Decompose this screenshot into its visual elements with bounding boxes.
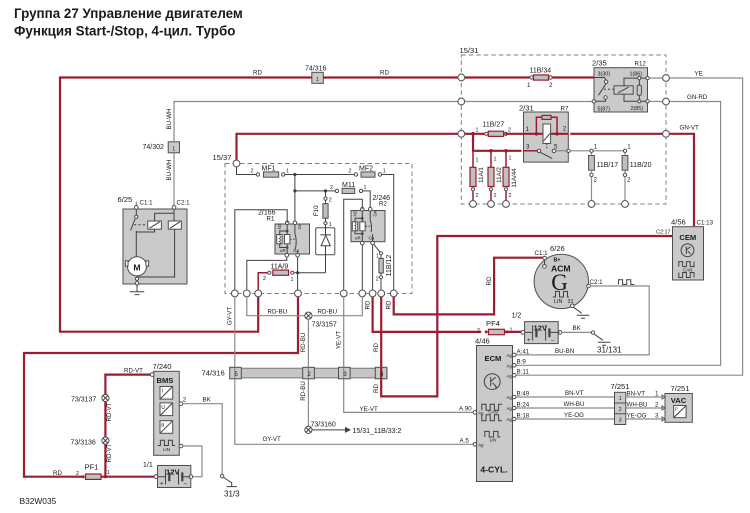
svg-text:RD: RD <box>386 300 393 309</box>
svg-text:B:49: B:49 <box>517 390 530 397</box>
svg-text:RD: RD <box>486 276 493 285</box>
wire R2 coil to YE-VT circle <box>344 199 363 290</box>
svg-text:2/31: 2/31 <box>519 104 534 113</box>
wire RD fuse 11B/34 to relay 2/35 pin 3(30) <box>552 76 594 78</box>
connector 74/316 pin1 on RD wire <box>305 66 327 84</box>
svg-text:2: 2 <box>627 177 631 184</box>
motor M <box>127 257 146 276</box>
svg-text:1: 1 <box>107 470 110 476</box>
svg-text:P: P <box>675 407 678 412</box>
svg-text:4/56: 4/56 <box>671 218 686 227</box>
wire R1 feed vertical <box>294 175 296 221</box>
svg-text:2: 2 <box>251 169 254 175</box>
svg-text:11B/17: 11B/17 <box>597 162 619 169</box>
wire GN-VT from 15/31 to CEM C1:13 <box>570 125 699 227</box>
svg-text:Ag: Ag <box>478 442 484 447</box>
svg-text:2: 2 <box>76 471 79 477</box>
svg-text:Ag: Ag <box>506 395 512 400</box>
svg-text:A:41: A:41 <box>517 348 530 355</box>
wire WH-BU ECM B:24 to 7/251 <box>516 401 614 408</box>
svg-text:+: + <box>527 337 531 344</box>
wire R1 coil low side to RD-BU circle <box>247 257 287 290</box>
wire BU-BN ACM C2:1 to ECM A:41 <box>515 280 650 355</box>
svg-text:C2:1: C2:1 <box>590 279 604 286</box>
svg-text:RD: RD <box>253 70 262 77</box>
pin C2:1 <box>172 206 176 210</box>
svg-text:2: 2 <box>594 177 598 184</box>
svg-text:B:9: B:9 <box>517 359 527 366</box>
right pins <box>512 353 516 357</box>
fuse 11B/17 <box>589 144 619 201</box>
svg-text:BU-WH: BU-WH <box>166 109 173 130</box>
svg-text:RD: RD <box>373 384 380 393</box>
fuses 11A/1 11A/2 11A/44 <box>470 149 518 201</box>
svg-text:Группа 27 Управление двигателе: Группа 27 Управление двигателем <box>14 6 243 21</box>
svg-text:BK: BK <box>203 396 212 403</box>
fuse 11B/20 <box>622 144 651 201</box>
node 15/37 top RD in <box>233 160 240 167</box>
svg-text:1/2: 1/2 <box>512 313 522 320</box>
svg-text:BU-WH: BU-WH <box>166 160 173 181</box>
node 15/31 right GN-VT out <box>663 130 670 137</box>
svg-text:73/3136: 73/3136 <box>71 439 96 446</box>
fuse MF1 <box>251 165 290 177</box>
svg-text:2: 2 <box>563 126 567 133</box>
svg-text:R1: R1 <box>267 215 275 222</box>
LIN icon <box>485 431 501 437</box>
svg-text:7/251: 7/251 <box>671 384 690 393</box>
wire MF2 to bottom circle (to ACM) <box>382 175 394 291</box>
svg-text:2: 2 <box>476 193 479 199</box>
svg-text:11B/12: 11B/12 <box>386 255 393 277</box>
svg-text:11A/2: 11A/2 <box>496 167 503 183</box>
wire RD 15/31 to fuse 11B/27 and relay 2/31 pin 1 <box>465 133 488 135</box>
svg-text:GY-VT: GY-VT <box>263 436 282 443</box>
svg-text:Gn: Gn <box>373 210 378 216</box>
svg-text:2: 2 <box>619 407 622 413</box>
junction M11 row tap <box>293 189 296 192</box>
switch and ground 31/131 <box>591 331 622 355</box>
svg-text:4-CYL.: 4-CYL. <box>480 465 507 475</box>
svg-text:RD-VT: RD-VT <box>124 367 143 374</box>
node 15/37 bottom GY-VT <box>231 290 238 297</box>
LIN wave icon on wire <box>619 280 635 285</box>
LIN wave icon <box>158 440 175 445</box>
battery 1/2 12V <box>521 322 562 345</box>
connector 74/302 pin1 on BU-WH wire <box>143 142 180 153</box>
svg-text:2: 2 <box>494 193 497 199</box>
svg-text:73/3160: 73/3160 <box>311 422 336 429</box>
wire GY-VT through rail pin5 <box>234 367 236 379</box>
wire BK from BMS pin 2 to switch 31/3 <box>183 396 223 474</box>
svg-text:Ag: Ag <box>478 411 484 416</box>
wire RD-BU R1 coil to junction 73/3157 <box>247 297 305 316</box>
connector 7/251 <box>611 382 630 425</box>
node 15/31 left RD relay feed in <box>458 130 465 137</box>
svg-text:uR: uR <box>280 248 286 253</box>
fuse F10 <box>313 197 332 228</box>
svg-text:11B/27: 11B/27 <box>483 122 505 129</box>
svg-text:A.5: A.5 <box>460 437 470 444</box>
fuse 11B/34 <box>527 68 553 90</box>
svg-text:11B/20: 11B/20 <box>630 162 652 169</box>
svg-text:Ag: Ag <box>506 417 512 422</box>
svg-text:15/31: 15/31 <box>460 46 479 55</box>
svg-text:3(30): 3(30) <box>598 72 611 78</box>
svg-text:11A/9: 11A/9 <box>271 263 289 270</box>
svg-text:M: M <box>133 263 140 273</box>
svg-text:YE-OG: YE-OG <box>564 412 584 419</box>
svg-text:7/240: 7/240 <box>153 362 172 371</box>
svg-text:1: 1 <box>527 82 531 89</box>
CAN icon <box>482 404 502 410</box>
wire RD PF1 to battery 1/1 <box>102 476 155 478</box>
svg-text:1: 1 <box>526 126 530 133</box>
junction 73/3157 <box>305 312 337 328</box>
wire RD-BU junction to R2 coil <box>312 297 362 316</box>
svg-text:RD-BU: RD-BU <box>300 381 307 401</box>
node 15/31 bottom 11B/20 out <box>622 201 629 208</box>
svg-text:ECM: ECM <box>485 354 502 363</box>
wire RD R2 switch output to PF4 / battery 1/2 <box>365 297 482 332</box>
svg-text:1: 1 <box>286 169 289 175</box>
svg-text:GY-VT: GY-VT <box>227 307 234 326</box>
svg-text:+: + <box>160 481 164 488</box>
svg-text:1: 1 <box>619 396 622 402</box>
svg-text:Gn: Gn <box>297 223 302 229</box>
svg-text:R7: R7 <box>561 106 569 113</box>
wire BN-VT ECM B:49 to 7/251 <box>516 390 614 397</box>
ground below starter 6/25 <box>130 285 144 295</box>
svg-text:WH-BU: WH-BU <box>564 401 585 408</box>
svg-text:MF1: MF1 <box>262 165 276 172</box>
svg-text:15/37: 15/37 <box>213 153 232 162</box>
wires 7/251 to VAC <box>626 390 663 419</box>
svg-text:2(85): 2(85) <box>631 106 644 112</box>
svg-text:Функция Start-/Stop, 4-цил. Ту: Функция Start-/Stop, 4-цил. Турбо <box>14 24 235 39</box>
starter switch <box>135 209 137 215</box>
svg-text:1: 1 <box>627 144 631 151</box>
svg-text:F10: F10 <box>313 205 320 216</box>
svg-text:1: 1 <box>509 156 512 162</box>
svg-text:15/31_11B/33:2: 15/31_11B/33:2 <box>353 428 402 435</box>
svg-text:1/1: 1/1 <box>143 462 153 469</box>
node 15/31 bottom 11A/44 out <box>503 201 510 208</box>
svg-text:YE-VT: YE-VT <box>360 406 378 413</box>
svg-text:Ga: Ga <box>369 236 375 241</box>
svg-text:1: 1 <box>383 169 386 175</box>
relay box 15/37 (dashed) <box>213 153 413 294</box>
svg-text:74/302: 74/302 <box>143 144 165 151</box>
junction box 15/31 (dashed) <box>460 46 667 204</box>
svg-text:U: U <box>161 405 165 411</box>
svg-text:YE: YE <box>695 71 703 78</box>
svg-text:Ag: Ag <box>506 406 512 411</box>
svg-text:11B/34: 11B/34 <box>530 68 552 75</box>
node 15/31 left BU-WH in <box>458 98 465 105</box>
wire GY-VT starter relay coil to ECM A:5 <box>227 297 474 445</box>
svg-text:2: 2 <box>508 128 511 134</box>
diode box <box>316 225 335 273</box>
fuse MF2 <box>349 165 386 177</box>
svg-text:Ag: Ag <box>506 363 512 368</box>
svg-text:3: 3 <box>526 143 530 150</box>
battery 1/1 12V <box>143 462 193 488</box>
svg-text:−: − <box>551 337 555 344</box>
svg-text:1: 1 <box>291 277 294 283</box>
wire RD MF2 output to generator ACM C1:1 <box>386 258 543 315</box>
svg-text:C2:1: C2:1 <box>177 200 191 207</box>
wire YE relay 2/35 pin 1(86) to right <box>515 71 743 376</box>
node 15/37 bottom RD MF2 out <box>390 290 397 297</box>
rail cell numbers <box>235 372 385 378</box>
svg-text:Ag: Ag <box>506 353 512 358</box>
wire RD relay feed line to 15/31 and CEM C1:13 <box>237 134 458 161</box>
wire GN-RD relay 2/35 pin 2(85) to right <box>515 94 721 366</box>
pin C1:1 <box>135 202 137 206</box>
switch and ground 31/3 <box>221 475 241 499</box>
wire internal feed row MF1/MF2 <box>237 167 257 175</box>
svg-text:2: 2 <box>263 276 266 282</box>
node 15/31 right GN-RD out <box>663 98 670 105</box>
node 15/37 bottom RD-BU R2 coil <box>359 290 366 297</box>
wire MF1 to MF2 <box>285 174 354 176</box>
wire F10 tap <box>325 191 327 197</box>
svg-text:WH-BU: WH-BU <box>627 401 648 408</box>
wire R1 coil to GY-VT circle <box>235 210 287 290</box>
wire RD second feed to PF1 <box>24 297 298 477</box>
svg-text:RD-VT: RD-VT <box>106 402 113 421</box>
svg-text:Ag: Ag <box>506 373 512 378</box>
wire RD-BU through rail pin2 <box>307 367 309 379</box>
node 15/31 bottom 11A/2 out <box>488 201 495 208</box>
fuse 11A/9 <box>258 263 325 290</box>
junction F10 tap <box>324 189 327 192</box>
svg-text:N2: N2 <box>353 210 358 216</box>
svg-text:1: 1 <box>594 144 598 151</box>
fuse 11B/12 <box>374 244 393 290</box>
svg-text:CAN: CAN <box>488 410 497 415</box>
node 15/37 bottom YE-VT R2 coil <box>340 290 347 297</box>
svg-text:RD-BU: RD-BU <box>300 333 307 353</box>
fuse PF4 <box>477 313 523 335</box>
node 15/31 bottom 11A/1 out <box>470 201 477 208</box>
svg-text:C2:17: C2:17 <box>656 229 670 235</box>
svg-text:6/26: 6/26 <box>550 244 565 253</box>
svg-text:3: 3 <box>619 418 622 424</box>
junction node before 11B/27 <box>471 132 475 136</box>
node 15/37 bottom RD-BU R1 coil <box>243 290 250 297</box>
svg-text:PF4: PF4 <box>486 319 500 328</box>
relay 2/35 R12 <box>592 59 649 113</box>
svg-text:GN-RD: GN-RD <box>687 94 708 101</box>
junction 73/3136 <box>71 437 110 446</box>
svg-text:BU-BN: BU-BN <box>555 348 574 355</box>
node 15/37 bottom RD to 11A/9 <box>255 290 262 297</box>
wire RD-BU junction down through 74/316 pin2 to 73/3160 <box>300 319 309 426</box>
svg-text:Ga: Ga <box>293 248 299 253</box>
wire YE-VT through rail pin3 <box>343 367 345 379</box>
relay 2/31 R7 <box>519 104 570 163</box>
svg-text:2: 2 <box>655 401 659 408</box>
wire RD from R2 output to CEM C2:17 via 74/316 pin4 <box>373 236 672 396</box>
wire R1 switch output to 11A/9 junction <box>297 257 299 273</box>
wire BU-WH from 15/31 to starter 6/25 C2:1 <box>166 102 458 206</box>
svg-text:1: 1 <box>655 390 659 397</box>
voltage sensor icon <box>160 403 173 416</box>
solenoid coils <box>148 221 162 229</box>
svg-text:I: I <box>162 388 164 394</box>
svg-text:11A/1: 11A/1 <box>478 167 485 183</box>
svg-text:RD-BU: RD-BU <box>268 309 288 316</box>
svg-text:RD: RD <box>373 343 380 352</box>
svg-text:2: 2 <box>329 198 332 204</box>
svg-text:B:11: B:11 <box>517 369 530 376</box>
svg-text:2: 2 <box>376 277 379 283</box>
svg-text:uR: uR <box>355 236 361 241</box>
svg-text:74/316: 74/316 <box>305 66 327 73</box>
node 15/37 bottom RD 11B/12 out <box>378 290 385 297</box>
svg-text:LIN: LIN <box>163 447 170 452</box>
temperature sensor icon <box>160 421 173 434</box>
svg-text:CAN: CAN <box>683 267 692 272</box>
svg-text:RD-VT: RD-VT <box>106 443 113 462</box>
svg-text:MF2: MF2 <box>359 165 373 172</box>
node 15/31 right YE out <box>663 75 670 82</box>
svg-text:YE-OG: YE-OG <box>627 412 647 419</box>
svg-text:RD: RD <box>53 470 62 477</box>
fuse M11 <box>330 182 367 194</box>
svg-text:BN-VT: BN-VT <box>565 390 584 397</box>
relay 2/246 R2 <box>351 195 390 245</box>
svg-text:CEM: CEM <box>679 233 696 242</box>
svg-text:73/3157: 73/3157 <box>312 322 337 329</box>
svg-text:C1:1: C1:1 <box>535 250 549 257</box>
wire YE-OG ECM B:18 to 7/251 <box>516 412 614 419</box>
svg-text:2/35: 2/35 <box>592 59 607 68</box>
svg-text:1: 1 <box>364 185 367 191</box>
fuse PF1 <box>53 463 110 480</box>
svg-text:2: 2 <box>509 193 512 199</box>
svg-text:LIN: LIN <box>490 437 497 442</box>
svg-text:RD: RD <box>380 70 389 77</box>
svg-text:θ: θ <box>161 423 164 429</box>
junction 73/3160 with off-page arrow <box>305 422 402 435</box>
svg-text:4/46: 4/46 <box>475 337 490 346</box>
pin 2 <box>179 402 183 406</box>
svg-text:2: 2 <box>183 397 187 404</box>
svg-text:A.90: A.90 <box>459 405 472 412</box>
node 15/37 bottom RD R1 output <box>295 290 302 297</box>
svg-text:C1:1: C1:1 <box>140 200 154 207</box>
wire M11 to relay R2 <box>363 191 371 207</box>
connector rail 74/316 <box>202 367 387 379</box>
svg-text:5(87): 5(87) <box>598 107 611 113</box>
svg-text:31/3: 31/3 <box>224 490 240 499</box>
ground at ACM pin 31 <box>574 307 590 318</box>
svg-text:1: 1 <box>329 222 332 228</box>
junction 73/3137 <box>71 394 109 403</box>
svg-text:1: 1 <box>476 128 479 134</box>
svg-text:11A/44: 11A/44 <box>511 168 518 188</box>
svg-text:1: 1 <box>172 146 175 152</box>
svg-text:2: 2 <box>549 82 553 89</box>
wire M11 row <box>295 190 335 192</box>
svg-text:2: 2 <box>477 328 480 334</box>
svg-text:1: 1 <box>494 157 497 163</box>
svg-text:2: 2 <box>330 185 333 191</box>
wire YE-VT R2 coil to ECM A:90 <box>336 297 474 413</box>
wire R2 coil low side to RD-BU circle <box>361 245 363 290</box>
svg-text:C1:13: C1:13 <box>697 220 714 227</box>
svg-text:−: − <box>184 481 188 488</box>
svg-text:31/131: 31/131 <box>597 346 622 355</box>
left pins <box>473 411 477 415</box>
svg-text:LIN: LIN <box>554 299 562 305</box>
wire RD top-left feed (battery plus rail) <box>60 70 458 332</box>
fuse 11B/27 <box>476 122 524 137</box>
svg-text:R2: R2 <box>379 200 387 207</box>
wire RD through rail pin4 <box>380 367 382 379</box>
svg-text:PF1: PF1 <box>85 463 99 472</box>
node 15/31 left RD in <box>458 74 465 81</box>
pin LIN <box>179 444 183 448</box>
svg-text:R12: R12 <box>635 61 647 68</box>
svg-text:B32W035: B32W035 <box>20 496 57 506</box>
wire RD branch to relay 2/31 pin 3 and 11A fuses <box>473 134 522 151</box>
relay 2/166 R1 <box>258 209 310 257</box>
svg-text:BN-VT: BN-VT <box>627 390 646 397</box>
svg-text:1: 1 <box>476 158 479 164</box>
svg-text:B:24: B:24 <box>517 401 530 408</box>
svg-text:1: 1 <box>376 253 379 259</box>
svg-text:1: 1 <box>316 77 319 83</box>
svg-text:B:18: B:18 <box>517 412 530 419</box>
svg-text:YE-VT: YE-VT <box>336 331 343 349</box>
svg-text:RD-BU: RD-BU <box>318 309 338 316</box>
wire BU-WH inside 15/31 to relay 2/35 pin 5(87) <box>465 101 594 103</box>
svg-text:3: 3 <box>655 412 659 419</box>
svg-text:BK: BK <box>573 325 582 332</box>
wire BMS LIN pin to battery minus <box>183 446 202 477</box>
current sensor icon <box>160 387 173 400</box>
svg-text:N2: N2 <box>277 223 282 229</box>
svg-text:73/3137: 73/3137 <box>71 397 96 404</box>
vacuum pump VAC 7/251 <box>662 384 692 422</box>
svg-text:GN-VT: GN-VT <box>680 125 699 132</box>
svg-text:BMS: BMS <box>157 376 174 385</box>
svg-text:2: 2 <box>349 169 352 175</box>
wire from 2/31 pin5 to fuses 11B/17 11B/20 <box>570 150 625 152</box>
svg-text:RD: RD <box>365 300 372 309</box>
svg-text:6/25: 6/25 <box>118 195 133 204</box>
wire R2 switch output down <box>372 245 374 290</box>
wire BK battery 1/2 to switch 31/131 <box>562 325 591 332</box>
svg-text:74/316: 74/316 <box>202 369 225 378</box>
wire RD inside 15/31 to fuse 11B/34 <box>465 76 531 78</box>
junction R1 feed <box>293 173 296 176</box>
svg-text:VAC: VAC <box>671 396 687 405</box>
wire RD-VT vertical to BMS <box>105 367 151 476</box>
node 15/37 bottom RD R2 output <box>369 290 376 297</box>
node 15/31 bottom 11B/17 out <box>588 201 595 208</box>
